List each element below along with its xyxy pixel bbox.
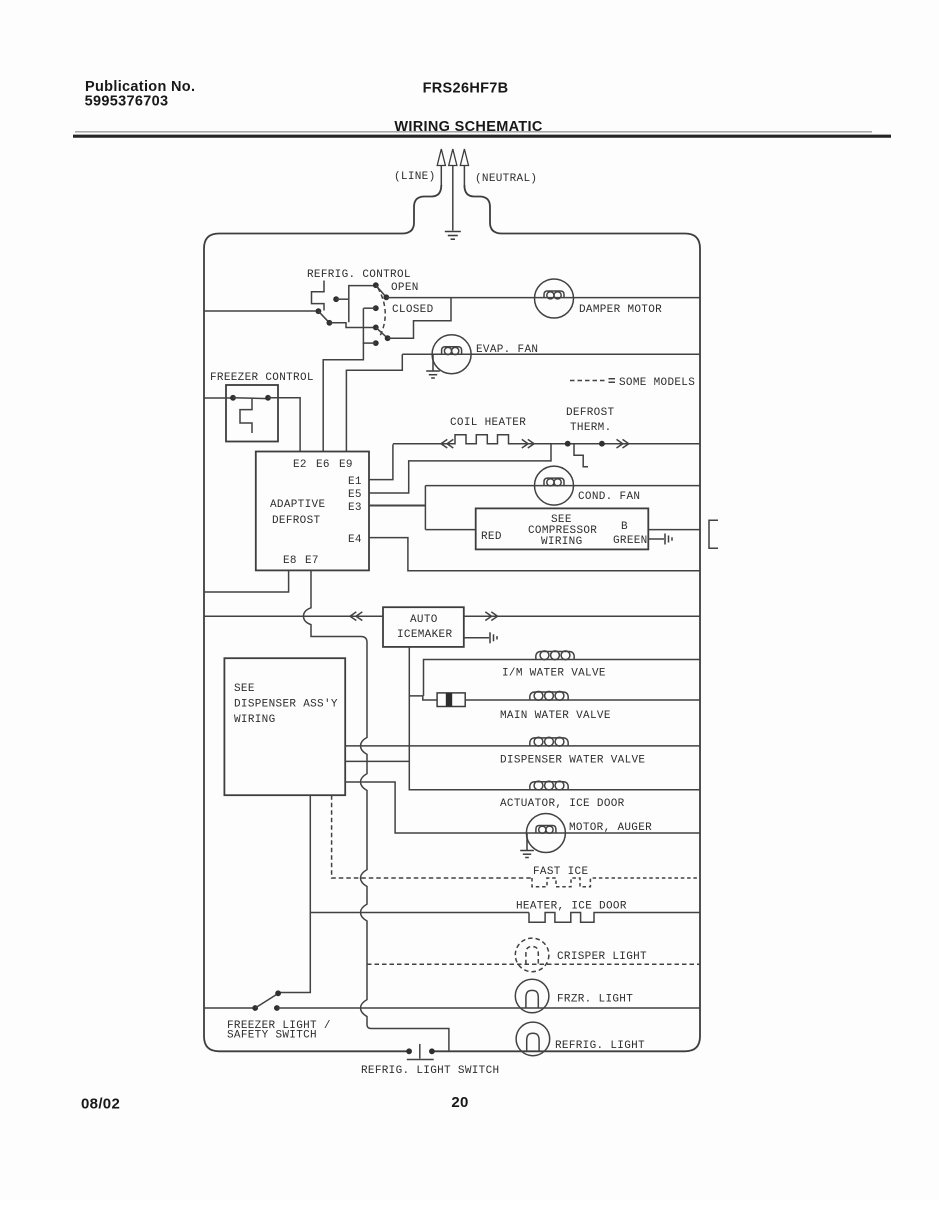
switch blade G-H [376, 327, 388, 338]
svg-text:AUTO: AUTO [410, 614, 438, 626]
svg-text:REFRIG. CONTROL: REFRIG. CONTROL [307, 269, 411, 281]
svg-text:COND. FAN: COND. FAN [578, 491, 640, 503]
chassis ground at green lead [665, 534, 672, 545]
wire: red lead into compressor box [425, 529, 475, 531]
wire: icemaker output to neutral bus [464, 615, 700, 617]
svg-text:EVAP. FAN: EVAP. FAN [476, 344, 538, 356]
wire: C stub to cam [336, 298, 349, 300]
svg-text:REFRIG. LIGHT: REFRIG. LIGHT [555, 1040, 645, 1052]
wire: icemaker bottom pin down to actuator row [409, 647, 700, 790]
cond fan motor M3 [535, 466, 574, 505]
svg-text:SOME MODELS: SOME MODELS [619, 377, 695, 389]
wire: B to cam follower [329, 323, 375, 328]
freezer control box [226, 385, 278, 442]
svg-text:CLOSED: CLOSED [392, 304, 434, 316]
node refrig control common A [316, 308, 322, 314]
svg-text:HEATER, ICE DOOR: HEATER, ICE DOOR [516, 901, 627, 913]
wire: E5 to defrost therm bypass [369, 444, 551, 493]
svg-text:COIL HEATER: COIL HEATER [450, 417, 526, 429]
svg-text:RED: RED [481, 531, 502, 543]
svg-text:ADAPTIVE: ADAPTIVE [270, 499, 325, 511]
svg-text:E3: E3 [348, 502, 362, 514]
node safety switch right [274, 1005, 280, 1011]
svg-text:E2: E2 [293, 459, 307, 471]
wire: icemaker ground lead [464, 637, 489, 639]
svg-text:E7: E7 [305, 555, 319, 567]
solenoid coil L1 I/M water valve [536, 651, 574, 660]
svg-text:FRS26HF7B: FRS26HF7B [423, 81, 509, 97]
defrost thermostat step [574, 444, 588, 467]
wire: dispenser pin 2 to actuator feed vertical [345, 760, 409, 762]
plug prong arrow LINE [440, 165, 442, 186]
svg-text:E9: E9 [339, 459, 353, 471]
freezer light DS2 lamp [515, 979, 549, 1013]
svg-text:WIRING: WIRING [234, 714, 276, 726]
node refrig control C [333, 296, 339, 302]
node refrig light switch left [406, 1048, 412, 1054]
wire: evap fan jog down to E9 [346, 354, 402, 451]
svg-text:E4: E4 [348, 534, 362, 546]
wire: freezer light line left bus to switch [204, 1007, 255, 1009]
switch blade A-B [318, 311, 329, 323]
svg-text:5995376703: 5995376703 [85, 94, 169, 110]
svg-text:B: B [621, 521, 628, 533]
svg-text:E8: E8 [283, 555, 297, 567]
wire: crisper dashed line from lights feed to neutral bus [367, 963, 700, 965]
auto icemaker box [383, 607, 464, 647]
node safety switch upper [275, 990, 281, 996]
wire: compressor output to neutral bus [648, 529, 700, 531]
wire: cond fan line to neutral bus [425, 485, 700, 487]
wire: open contact to damper motor to neutral bus [386, 297, 700, 299]
switch blade safety switch [255, 994, 278, 1009]
wire: dispenser pin 3 to auger line [345, 782, 700, 833]
solenoid coil L2 main water valve [530, 691, 568, 700]
svg-text:I/M WATER VALVE: I/M WATER VALVE [502, 668, 606, 680]
wire: riser to I/M valve line [424, 660, 701, 696]
adaptive defrost control box [256, 452, 369, 571]
wire: I stub to vertical [363, 342, 376, 344]
node defrost therm right [599, 441, 605, 447]
node refrig light switch right [429, 1048, 435, 1054]
wire: E7 down with hop over icemaker line then to lights feed [304, 570, 449, 1051]
refrig light switch plunger [419, 1044, 421, 1059]
wire: left bus to refrig control common [204, 310, 318, 312]
wire: E3 to cond fan junction [369, 505, 425, 507]
ice door heater R3 element and wire [529, 913, 700, 923]
wire: F to vertical [363, 307, 375, 309]
node safety switch left [252, 1005, 258, 1011]
wire: freezer light line to neutral bus [277, 1007, 700, 1009]
svg-text:E6: E6 [316, 459, 330, 471]
svg-text:MAIN WATER VALVE: MAIN WATER VALVE [500, 710, 611, 722]
wire: line bus to auto icemaker [204, 615, 383, 617]
wire: green lead [648, 538, 664, 540]
freezer control thermostat step [240, 399, 252, 433]
diode CR1 [437, 693, 465, 707]
wire: E8 down and left to line bus [204, 570, 289, 592]
svg-text:FREEZER CONTROL: FREEZER CONTROL [210, 372, 314, 384]
svg-text:(NEUTRAL): (NEUTRAL) [475, 173, 537, 185]
wire: dispenser bottom dashed drop to fast ice line [332, 795, 532, 878]
wire: diode to main valve line [465, 699, 700, 701]
fast ice heater R2 dashed element [532, 878, 700, 887]
plug prong arrow ground middle [452, 165, 454, 231]
wire: heater ice door tap [310, 912, 529, 914]
svg-text:DEFROST: DEFROST [272, 515, 321, 527]
wire: junction vertical cond fan to compressor red [424, 486, 426, 530]
wire: refrig control output down to E6 [323, 308, 363, 451]
wire: dispenser bottom solid drop to safety switch [278, 795, 310, 992]
svg-text:SAFETY SWITCH: SAFETY SWITCH [227, 1030, 317, 1042]
svg-text:DEFROST: DEFROST [566, 407, 615, 419]
external bracket connector [709, 520, 718, 548]
svg-text:FAST ICE: FAST ICE [533, 866, 588, 878]
wire: E1 to coil heater line [369, 444, 393, 479]
switch blade freezer control [233, 397, 268, 400]
wire: H contact up to damper line [388, 298, 451, 338]
crisper light DS1 dashed lamp [515, 938, 549, 972]
node refrig control E open output [383, 294, 389, 300]
svg-text:CRISPER LIGHT: CRISPER LIGHT [557, 951, 647, 963]
evap fan motor M2 [432, 335, 471, 374]
node freezer control left [230, 395, 236, 401]
svg-text:DISPENSER ASS'Y: DISPENSER ASS'Y [234, 699, 338, 711]
damper motor M1 [535, 279, 574, 318]
svg-text:(LINE): (LINE) [394, 171, 436, 183]
wire: dispenser water valve line [345, 745, 700, 747]
node refrig control D [373, 282, 379, 288]
coil heater element R1 square wave and wire [393, 435, 700, 444]
compressor interconnect box [476, 508, 649, 549]
connector chevrons left of coil heater [441, 439, 453, 448]
chassis ground at icemaker [490, 632, 497, 643]
connector chevrons before icemaker [350, 612, 362, 621]
svg-text:SEE: SEE [234, 683, 255, 695]
svg-text:DISPENSER WATER VALVE: DISPENSER WATER VALVE [500, 755, 645, 767]
node refrig control G [373, 325, 379, 331]
wire: E4 to lower bus to neutral [369, 538, 700, 571]
svg-text:ACTUATOR, ICE DOOR: ACTUATOR, ICE DOOR [500, 798, 625, 810]
wire: freezer control output to E2 [268, 398, 300, 452]
svg-text:OPEN: OPEN [391, 282, 419, 294]
refrig light DS3 lamp [516, 1022, 550, 1056]
wire: left bus into freezer control [204, 397, 233, 399]
svg-text:WIRING SCHEMATIC: WIRING SCHEMATIC [394, 119, 542, 135]
wire: line-side bus from left plug prong along top, left border, to bottom switch [204, 185, 441, 1051]
connector chevrons after icemaker [485, 612, 497, 621]
svg-text:MOTOR, AUGER: MOTOR, AUGER [569, 822, 652, 834]
svg-text:GREEN: GREEN [613, 535, 648, 547]
svg-text:FRZR. LIGHT: FRZR. LIGHT [557, 994, 633, 1006]
plug prong arrow NEUTRAL [463, 165, 465, 186]
svg-text:ICEMAKER: ICEMAKER [397, 629, 452, 641]
solenoid coil L4 actuator ice door [530, 781, 568, 790]
wire: neutral-side bus from right plug prong along top, right border, to bottom switch [432, 185, 700, 1051]
svg-text:08/02: 08/02 [81, 1096, 120, 1113]
header thin rule [75, 131, 872, 133]
svg-text:WIRING: WIRING [541, 536, 583, 548]
node refrig control B [327, 320, 333, 326]
node refrig control H [385, 335, 391, 341]
switch blade D-E open [376, 285, 387, 297]
node defrost therm left [565, 441, 571, 447]
node freezer control right [265, 395, 271, 401]
svg-text:E5: E5 [348, 489, 362, 501]
wire: tee to diode [409, 696, 437, 700]
refrig control cam body [349, 286, 374, 323]
dispenser assembly box [224, 658, 345, 795]
dashed cam arc [378, 288, 385, 336]
some models legend dashed sample [570, 380, 607, 382]
header thick rule [73, 135, 891, 138]
svg-text:THERM.: THERM. [570, 422, 612, 434]
node refrig control I [373, 340, 379, 346]
auger motor M4 [526, 814, 565, 853]
svg-text:DAMPER MOTOR: DAMPER MOTOR [579, 304, 662, 316]
svg-text:20: 20 [451, 1094, 468, 1111]
refrig control sensor step [312, 281, 325, 311]
solenoid coil L3 dispenser water valve [530, 737, 568, 746]
connector chevrons right of defrost therm [617, 439, 629, 448]
wire: evap fan line to neutral bus [402, 353, 700, 355]
ground at auger motor [520, 833, 534, 858]
svg-text:REFRIG. LIGHT SWITCH: REFRIG. LIGHT SWITCH [361, 1065, 499, 1077]
node refrig control F closed contact [373, 305, 379, 311]
connector chevrons right of coil heater [522, 439, 534, 448]
ground at evap fan [426, 354, 440, 378]
svg-text:E1: E1 [348, 476, 362, 488]
ground symbol below middle prong [445, 232, 461, 240]
